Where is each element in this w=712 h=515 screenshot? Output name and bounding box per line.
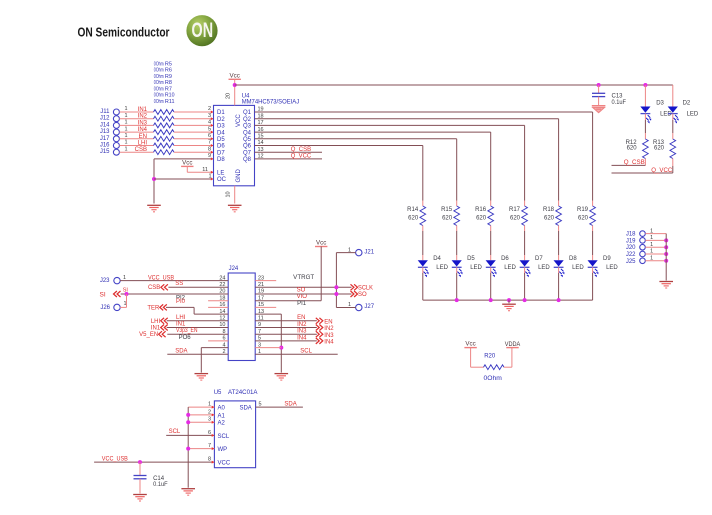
junction row3 (279, 346, 283, 350)
svg-text:Q1: Q1 (243, 110, 252, 116)
ground C14 (133, 494, 147, 496)
connector J11 pin 1 (113, 109, 119, 115)
wire vcc to VIO (320, 247, 322, 301)
wire J22 (645, 253, 666, 255)
wire J25 (645, 260, 666, 262)
svg-text:IN4: IN4 (324, 340, 334, 346)
wire R15 to D5 (456, 226, 458, 232)
svg-text:U4: U4 (242, 94, 250, 100)
offpage IN2 (319, 325, 322, 331)
svg-text:J22: J22 (626, 252, 636, 258)
wire SCL U5 (166, 434, 214, 436)
wire vcc stub U4 (234, 79, 236, 105)
wire vcc R20 (470, 348, 472, 368)
svg-text:620: 620 (442, 216, 453, 222)
wire Q_CSB stub right (612, 164, 646, 166)
svg-text:620: 620 (578, 216, 589, 222)
wire TER jog (166, 306, 194, 308)
wire J12 to R (119, 118, 153, 120)
wire Q6 to column (255, 145, 423, 147)
wire J11 to R (119, 111, 153, 113)
svg-text:SS: SS (175, 281, 183, 287)
junction SCLK (334, 285, 338, 289)
svg-text:Q2: Q2 (243, 117, 252, 123)
connector J14 pin 1 (113, 122, 119, 128)
svg-text:CSB: CSB (148, 285, 160, 291)
svg-text:R6: R6 (165, 68, 172, 74)
svg-text:10: 10 (225, 191, 231, 197)
svg-text:VCC_USB: VCC_USB (102, 457, 128, 463)
svg-text:OC: OC (217, 177, 227, 183)
svg-text:SI: SI (100, 292, 106, 299)
ground LED rail (502, 303, 516, 305)
svg-text:Q_CSB: Q_CSB (291, 147, 311, 153)
svg-text:R5: R5 (165, 61, 172, 67)
svg-text:0Ohm: 0Ohm (154, 74, 164, 80)
svg-text:D2: D2 (683, 101, 691, 107)
svg-text:D4: D4 (217, 130, 225, 136)
svg-text:LED: LED (687, 112, 699, 118)
svg-text:ON: ON (192, 19, 214, 42)
connector J15 pin 1 (113, 149, 119, 155)
svg-text:J25: J25 (626, 259, 636, 265)
svg-text:A2: A2 (218, 421, 226, 427)
svg-text:Q4: Q4 (243, 130, 252, 136)
wire IN1 row10 (167, 327, 229, 329)
svg-text:SDA: SDA (175, 348, 187, 354)
LED D4 (418, 260, 428, 266)
junction WP (186, 447, 190, 451)
svg-text:R19: R19 (577, 207, 589, 213)
svg-text:VIO: VIO (297, 294, 308, 300)
svg-text:VCC: VCC (236, 114, 242, 127)
svg-text:R14: R14 (407, 207, 419, 213)
svg-text:1: 1 (124, 106, 127, 112)
svg-text:R15: R15 (441, 207, 453, 213)
resistor R16 620 (488, 206, 494, 226)
wire R to U4 pin 6 (174, 138, 214, 140)
svg-text:R20: R20 (484, 354, 496, 360)
svg-text:LED: LED (504, 265, 516, 271)
connector J21 pin 1 (356, 249, 362, 255)
svg-text:R10: R10 (165, 93, 175, 99)
junction SO (334, 292, 338, 296)
svg-text:IN3: IN3 (324, 333, 334, 339)
wire R20 VDDA (504, 366, 512, 368)
connector J26 pin 1 (114, 304, 120, 310)
LED D8 (554, 260, 564, 266)
wire R17 to D7 (524, 226, 526, 232)
connector J19 pin 1 (640, 238, 646, 244)
svg-text:6: 6 (208, 133, 211, 139)
ground U5 bus (181, 488, 195, 490)
wire stub row18 (208, 300, 228, 302)
svg-text:D5: D5 (217, 137, 225, 143)
wire LHI row12 (167, 320, 229, 322)
svg-text:1: 1 (208, 174, 211, 180)
svg-text:R7: R7 (165, 86, 172, 92)
wire J21-J27 bus (335, 253, 337, 308)
svg-text:SDA: SDA (239, 406, 251, 412)
svg-text:D7: D7 (217, 150, 225, 156)
wire R12 to Q_CSB (644, 159, 646, 166)
offpage SCLK (354, 284, 357, 290)
ground left of U4 (147, 204, 161, 206)
svg-text:0Ohm: 0Ohm (154, 99, 164, 105)
resistor R14 620 (420, 206, 426, 226)
svg-text:J11: J11 (100, 109, 110, 115)
svg-text:1: 1 (124, 113, 127, 119)
svg-text:EN: EN (139, 134, 147, 140)
svg-text:PI0: PI0 (176, 299, 186, 305)
svg-text:D3: D3 (217, 124, 225, 130)
svg-text:D2: D2 (217, 117, 225, 123)
connector J20 pin 1 (640, 244, 646, 250)
svg-text:Q6: Q6 (243, 144, 252, 150)
wire J14 to R (119, 124, 153, 126)
offpage SO (354, 291, 357, 297)
junction LED rail (523, 298, 527, 302)
svg-text:A0: A0 (218, 406, 226, 412)
junction vcc U4 (233, 83, 237, 87)
svg-text:Q5: Q5 (243, 137, 252, 143)
svg-text:D8: D8 (569, 256, 577, 262)
LED D7 (520, 260, 530, 266)
wire R to U4 pin 8 (174, 151, 214, 153)
wire D6 to rail (490, 267, 492, 273)
wire D7 to rail (524, 267, 526, 273)
wire R18 to D8 (558, 226, 560, 232)
svg-text:Vcc: Vcc (316, 240, 326, 247)
ground row4 (195, 373, 209, 375)
wire Q2 to column (255, 118, 559, 120)
wire D3 branch (644, 85, 646, 107)
wire R14 to D4 (422, 226, 424, 232)
svg-text:EN: EN (297, 315, 305, 321)
svg-text:J13: J13 (100, 129, 110, 135)
wire J18 bus (665, 234, 667, 281)
svg-text:LED: LED (572, 265, 584, 271)
wire D2 to R13 (672, 114, 674, 121)
wire SCLK row21 (255, 286, 351, 288)
svg-text:R18: R18 (543, 207, 555, 213)
svg-text:SCL: SCL (169, 429, 181, 435)
svg-text:IN2: IN2 (138, 114, 148, 120)
wire IN4 row (255, 340, 317, 342)
wire R to U4 pin 3 (174, 118, 214, 120)
resistor R15 620 (454, 206, 460, 226)
connector J12 pin 1 (113, 116, 119, 122)
svg-text:LHI: LHI (151, 319, 161, 325)
resistor R13 620 (670, 139, 676, 159)
wire D9 to rail (592, 267, 594, 273)
svg-text:IN2: IN2 (324, 326, 334, 332)
wire R13 to Q_VCC (672, 159, 674, 167)
junction SI J26 (125, 292, 129, 296)
svg-text:J18: J18 (626, 232, 636, 238)
wire SO row19 (255, 293, 351, 295)
svg-text:R8: R8 (165, 80, 172, 86)
wire LED bottom rail (423, 299, 593, 301)
resistor R12 620 (643, 139, 649, 159)
svg-text:LHI: LHI (176, 315, 186, 321)
svg-text:J24: J24 (229, 266, 239, 272)
svg-text:WP: WP (218, 447, 228, 453)
wire D8 to rail (558, 267, 560, 273)
wire gnd bus U5 (188, 406, 214, 408)
wire Q5 to column (255, 138, 457, 140)
wire R to U4 pin 7 (174, 145, 214, 147)
wire rail ground stub (508, 300, 510, 303)
wire gnd stub U4 (234, 186, 236, 204)
wire EN row (255, 320, 317, 322)
wire Q4 to column (255, 131, 491, 133)
wire stub row16 (208, 306, 228, 308)
wire J13 to R (119, 131, 153, 133)
svg-text:LE: LE (217, 171, 224, 177)
wire J26 up (120, 306, 127, 308)
svg-text:IN4: IN4 (138, 127, 148, 133)
svg-text:IN1: IN1 (151, 326, 161, 332)
wire R to U4 pin 5 (174, 131, 214, 133)
eeprom U5 box (214, 401, 255, 468)
svg-text:Vcc: Vcc (465, 341, 475, 348)
svg-text:620: 620 (510, 216, 521, 222)
LED D9 (588, 260, 598, 266)
capacitor C13 (598, 85, 600, 93)
svg-text:4: 4 (208, 120, 211, 126)
svg-text:R11: R11 (165, 99, 175, 105)
svg-text:J21: J21 (364, 249, 374, 255)
svg-text:1: 1 (124, 140, 127, 146)
svg-text:U5: U5 (214, 390, 222, 396)
svg-text:VCC_USB: VCC_USB (148, 276, 174, 282)
offpage EN (319, 318, 322, 324)
junction LED rail (557, 298, 561, 302)
svg-text:620: 620 (627, 146, 638, 152)
wire J20 (645, 246, 666, 248)
svg-text:Q_CSB: Q_CSB (624, 160, 645, 166)
svg-text:C13: C13 (612, 93, 624, 99)
svg-text:LED: LED (470, 265, 482, 271)
connector J27 pin 1 (356, 304, 362, 310)
resistor 0Ohm row 6 (154, 143, 175, 148)
svg-text:620: 620 (476, 216, 487, 222)
svg-text:J16: J16 (100, 143, 110, 149)
svg-text:R16: R16 (475, 207, 487, 213)
ground J bus (659, 281, 673, 283)
wire D2 branch (672, 85, 674, 107)
svg-text:J17: J17 (100, 136, 110, 142)
svg-text:620: 620 (544, 216, 555, 222)
svg-text:GND: GND (236, 169, 242, 183)
LED D3 (640, 107, 650, 113)
svg-text:V3p3_EN: V3p3_EN (176, 328, 198, 334)
junction OC node (152, 177, 156, 181)
connector J24 box (228, 273, 255, 361)
connector J22 pin 1 (640, 251, 646, 257)
connector J13 pin 1 (113, 129, 119, 135)
wire Q_VCC stub right (612, 172, 673, 174)
svg-text:IN3: IN3 (297, 329, 307, 335)
wire WP (188, 448, 214, 450)
svg-text:7: 7 (208, 140, 211, 146)
wire J19 (645, 239, 666, 241)
junction D3 (643, 83, 647, 87)
wire SI row20 (121, 293, 229, 295)
resistor 0Ohm row 4 (154, 130, 175, 135)
wire VCC_USB U5 (94, 461, 214, 463)
wire R19 to D9 (592, 226, 594, 232)
svg-text:PI1: PI1 (297, 301, 307, 307)
wire Q3 to column (255, 124, 525, 126)
wire VCC rail (235, 84, 673, 86)
svg-text:D7: D7 (535, 256, 543, 262)
svg-text:TER: TER (147, 305, 160, 311)
wire J27 (336, 307, 355, 309)
junction C13 (597, 83, 601, 87)
wire D5 to rail (456, 267, 458, 273)
svg-text:Q_VCC: Q_VCC (651, 168, 673, 174)
junction LED rail (489, 298, 493, 302)
wire Q8 Q_VCC (255, 158, 323, 160)
svg-text:IN4: IN4 (297, 335, 307, 341)
svg-text:EN: EN (324, 319, 332, 325)
svg-text:D6: D6 (217, 144, 225, 150)
wire stub row15 (255, 306, 276, 308)
svg-text:D3: D3 (656, 101, 664, 107)
resistor R18 620 (556, 206, 562, 226)
svg-text:LHI: LHI (138, 141, 148, 147)
resistor 0Ohm row 5 (154, 136, 175, 141)
wire IN3 row (255, 333, 317, 335)
svg-text:D6: D6 (501, 256, 509, 262)
svg-text:Vcc: Vcc (182, 160, 192, 167)
svg-text:R9: R9 (165, 74, 172, 80)
svg-text:J23: J23 (100, 278, 110, 284)
svg-text:MM74HC573/SOEIAJ: MM74HC573/SOEIAJ (242, 100, 300, 106)
svg-text:1: 1 (124, 120, 127, 126)
svg-text:SO: SO (358, 292, 367, 298)
connector J16 pin 1 (113, 143, 119, 149)
svg-text:IN3: IN3 (138, 120, 148, 126)
wire R to U4 pin 2 (174, 111, 214, 113)
junction J20 (664, 245, 668, 249)
svg-text:D5: D5 (467, 256, 475, 262)
svg-text:1: 1 (123, 275, 126, 281)
junction LED rail (455, 298, 459, 302)
svg-text:VCC: VCC (218, 461, 231, 467)
svg-text:J26: J26 (100, 305, 110, 311)
resistor 0Ohm row 2 (154, 116, 175, 121)
wire D8 pin 9 (154, 158, 214, 160)
svg-text:J27: J27 (364, 304, 374, 310)
wire row13 gnd (255, 313, 281, 315)
op-amp U4 MM74HC573 box (214, 105, 255, 185)
wire D8 down to OC node (153, 159, 155, 204)
wire V5_EN row8 (167, 333, 228, 335)
svg-text:J12: J12 (100, 116, 110, 122)
svg-text:SCLK: SCLK (358, 285, 373, 291)
LED D5 (452, 260, 462, 266)
wire R16 to D6 (490, 226, 492, 232)
svg-text:J14: J14 (100, 122, 110, 128)
svg-text:R17: R17 (509, 207, 521, 213)
wire D4 to rail (422, 267, 424, 273)
wire Q7 Q_CSB (255, 151, 323, 153)
svg-text:0.1uF: 0.1uF (153, 482, 168, 488)
wire J21 (336, 252, 355, 254)
LED D2 (668, 107, 678, 113)
svg-text:620: 620 (408, 216, 419, 222)
svg-text:LED: LED (538, 265, 550, 271)
wire Q1 to column (255, 111, 593, 113)
junction C14 (138, 460, 142, 464)
wire row3 (255, 347, 281, 349)
svg-text:SCL: SCL (300, 349, 312, 355)
wire CSB row22 (168, 286, 228, 288)
svg-text:Vcc: Vcc (230, 72, 240, 79)
svg-text:5: 5 (208, 126, 211, 132)
wire stub row6 (208, 340, 228, 342)
svg-text:ON Semiconductor: ON Semiconductor (78, 25, 170, 40)
wire J15 to R (119, 151, 153, 153)
offpage IN3 (319, 331, 322, 337)
svg-text:IN1: IN1 (176, 322, 186, 328)
wire A2 (188, 421, 214, 423)
connector J23 pin 1 (114, 277, 120, 283)
connector J25 pin 1 (640, 258, 646, 264)
svg-text:PO6: PO6 (179, 335, 192, 341)
svg-text:IN1: IN1 (138, 107, 148, 113)
junction A2 (186, 420, 190, 424)
svg-text:A1: A1 (218, 413, 226, 419)
svg-text:D4: D4 (433, 256, 441, 262)
resistor R19 620 (590, 206, 596, 226)
svg-text:SCL: SCL (218, 434, 230, 440)
wire SCL row1 (255, 353, 338, 355)
svg-text:J15: J15 (100, 149, 110, 155)
resistor 0Ohm row 7 (154, 150, 175, 155)
svg-text:0Ohm: 0Ohm (154, 93, 164, 99)
resistor 0Ohm row 3 (154, 123, 175, 128)
svg-text:0Ohm: 0Ohm (154, 80, 164, 86)
ground below U4 (228, 204, 242, 206)
svg-text:VTRGT: VTRGT (293, 275, 314, 281)
svg-text:SDA: SDA (284, 402, 296, 408)
connector J18 pin 1 (640, 231, 646, 237)
svg-text:3: 3 (208, 113, 211, 119)
svg-text:Q3: Q3 (243, 124, 252, 130)
svg-text:Q_VCC: Q_VCC (291, 154, 312, 160)
svg-text:Q7: Q7 (243, 150, 252, 156)
svg-text:2: 2 (208, 106, 211, 112)
junction J22 (664, 252, 668, 256)
wire row4 gnd (201, 347, 228, 349)
wire OC row (154, 178, 214, 180)
svg-text:1: 1 (124, 146, 127, 152)
svg-text:0Ohm: 0Ohm (484, 376, 502, 382)
svg-text:1: 1 (124, 133, 127, 139)
svg-text:D1: D1 (217, 110, 225, 116)
svg-text:1: 1 (124, 126, 127, 132)
wire SDA row2 (167, 353, 228, 355)
svg-text:0.1uF: 0.1uF (612, 100, 627, 106)
wire J17 to R (119, 138, 153, 140)
resistor R20 0Ohm (484, 365, 505, 370)
LED D6 (486, 260, 496, 266)
resistor 0Ohm row 1 (154, 110, 175, 115)
